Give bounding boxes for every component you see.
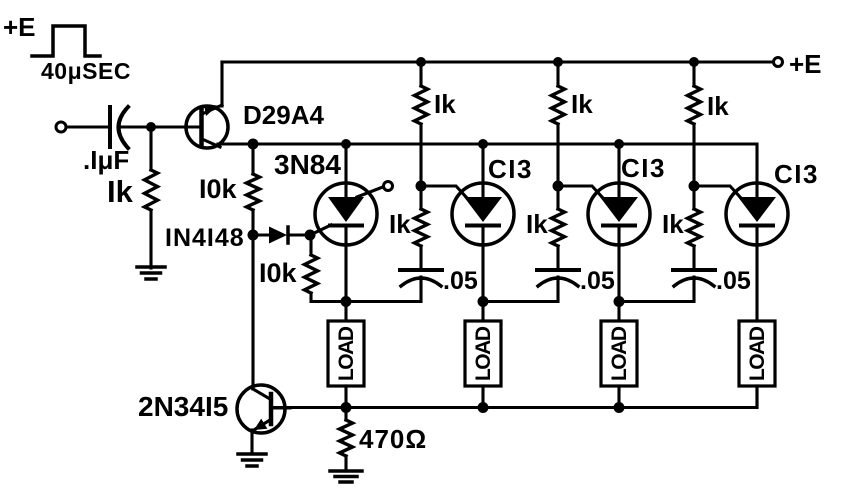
SCR #4 cathode wire xyxy=(755,225,758,321)
U1 cathode wire xyxy=(344,225,347,302)
svg-text:.05: .05 xyxy=(443,267,478,295)
wire node down to 10k lower xyxy=(309,235,312,255)
svg-text:LOAD: LOAD xyxy=(335,326,358,381)
wire capacitor C to previous cathode node xyxy=(619,277,694,302)
junction U1 cathode node xyxy=(341,296,352,307)
svg-text:LOAD: LOAD xyxy=(608,326,631,381)
svg-text:I0k: I0k xyxy=(199,174,238,204)
diode D1 1N4148 xyxy=(253,227,310,244)
pulse waveform symbol xyxy=(32,26,100,56)
svg-text:I0k: I0k xyxy=(259,258,298,288)
svg-text:IN4I48: IN4I48 xyxy=(165,224,245,252)
svg-text:+E: +E xyxy=(789,49,822,79)
U1 anode wire xyxy=(344,144,347,200)
svg-text:CI3: CI3 xyxy=(621,153,666,183)
svg-text:Ik: Ik xyxy=(107,174,134,209)
junction diode cathode node xyxy=(305,230,316,241)
SCR #2 triangle xyxy=(464,197,502,222)
wire 470Ω to ground xyxy=(344,456,347,471)
svg-text:Ik: Ik xyxy=(434,89,456,119)
wire 10k to diode node xyxy=(251,210,254,235)
capacitor C1 .1μF right plate xyxy=(119,107,129,148)
junction Q1 collector node xyxy=(248,139,259,150)
resistor 10k (upper) xyxy=(247,174,260,210)
Q2 base bar xyxy=(269,394,274,424)
wire 1k to capacitor B xyxy=(556,246,559,270)
junction SCR #3 anode on rail xyxy=(614,139,624,149)
wire input terminal to C1 xyxy=(67,125,110,128)
wire 1k to capacitor C xyxy=(692,246,695,270)
svg-text:Ik: Ik xyxy=(707,91,729,121)
wire 1k to capacitor A xyxy=(419,246,422,270)
svg-text:Ik: Ik xyxy=(526,209,548,239)
SCR C13 #2 body xyxy=(452,183,514,245)
capacitor C1 .1μF left plate xyxy=(108,107,112,147)
wire 1k to gate node B (crosses anode rail) xyxy=(556,124,559,186)
SCR #4 cathode bar xyxy=(741,224,773,228)
Q2 emitter wire xyxy=(250,430,253,453)
wire gate node B to coupling 1k xyxy=(556,186,559,209)
wire rail to 470Ω xyxy=(344,408,347,421)
junction +E rail node C xyxy=(689,57,699,67)
junction +E rail node A xyxy=(416,57,426,67)
capacitor .05 B curved plate xyxy=(538,278,578,286)
svg-text:.IμF: .IμF xyxy=(83,145,129,175)
junction +E rail node B xyxy=(553,57,563,67)
resistor 1k pull-up C xyxy=(688,86,701,124)
wire LOAD 3 to bottom rail xyxy=(617,386,620,408)
wire capacitor A to previous cathode node xyxy=(346,277,421,302)
svg-text:CI3: CI3 xyxy=(488,154,533,184)
wire node A to Q1 base xyxy=(151,125,201,128)
junction gate node A xyxy=(416,181,427,192)
junction bottom rail at x=483 xyxy=(478,402,489,413)
LOAD 4 box xyxy=(739,321,775,386)
capacitor .05 C curved plate xyxy=(674,278,714,286)
LOAD 1 box xyxy=(328,321,364,386)
wire gate node B to SCR gate xyxy=(558,186,603,198)
terminal +E xyxy=(774,58,783,67)
junction bottom rail at x=619 xyxy=(614,402,625,413)
wire LOAD 1 to bottom rail xyxy=(344,386,347,408)
Q1 collector lead xyxy=(202,139,220,147)
transistor Q2 2N3415 body xyxy=(237,385,285,433)
wire bottom common rail xyxy=(272,386,757,408)
wire 1k to gate node C (crosses anode rail) xyxy=(692,124,695,186)
wire rail to 1k pull-up C xyxy=(692,62,695,86)
wire 1k to gate node A (crosses anode rail) xyxy=(419,124,422,186)
wire node A down to R1 xyxy=(149,127,152,170)
svg-text:CI3: CI3 xyxy=(774,159,819,189)
wire gate lead to U1 cathode gate xyxy=(310,225,331,235)
Q2 collector lead xyxy=(253,389,270,399)
resistor R1 1k xyxy=(145,170,158,210)
svg-text:40μSEC: 40μSEC xyxy=(41,58,131,84)
SCR #2 cathode wire xyxy=(481,225,484,302)
U1 anode-gate lead xyxy=(357,187,384,198)
svg-text:Ik: Ik xyxy=(662,209,684,239)
SCR #3 cathode bar xyxy=(603,224,635,228)
svg-text:.05: .05 xyxy=(716,267,751,295)
capacitor .05 A curved plate xyxy=(401,278,441,286)
wire gate node A to coupling 1k xyxy=(419,186,422,209)
svg-text:+E: +E xyxy=(3,12,36,42)
wire cathode node to LOAD 1 xyxy=(344,302,347,323)
Q1 emitter lead with arrow xyxy=(202,105,222,117)
wire cathode node to LOAD 2 xyxy=(481,302,484,323)
SCR #3 triangle xyxy=(600,197,638,222)
wire rail to 1k pull-up B xyxy=(556,62,559,86)
svg-text:.05: .05 xyxy=(580,267,615,295)
junction node A xyxy=(146,122,156,132)
wire cathode node to LOAD 3 xyxy=(617,302,620,323)
wire rail to 1k pull-up A xyxy=(419,62,422,86)
junction gate node C xyxy=(689,181,700,192)
Q2 base wire to rail xyxy=(272,406,290,409)
resistor 1k pull-up B xyxy=(552,86,565,124)
wire gate node C to coupling 1k xyxy=(692,186,695,209)
wire gate node A to SCR gate xyxy=(421,186,467,198)
resistor 1k coupling B xyxy=(552,209,565,246)
Q1 base bar xyxy=(199,109,204,146)
wire capacitor B to previous cathode node xyxy=(483,277,558,302)
SCR #3 cathode wire xyxy=(617,225,620,302)
wire diode node down to Q2 collector xyxy=(251,235,254,389)
svg-text:2N34I5: 2N34I5 xyxy=(138,391,228,422)
wire 10k lower to cathode node xyxy=(311,293,346,302)
resistor 10k (lower) xyxy=(305,255,318,293)
input terminal xyxy=(56,122,66,132)
ground (input bias) xyxy=(137,267,165,279)
junction SCR #2 anode on rail xyxy=(478,139,488,149)
junction U1 anode on rail xyxy=(341,139,351,149)
U1 gate terminal xyxy=(384,182,393,191)
resistor 470Ω xyxy=(340,420,353,456)
SCR C13 #3 body xyxy=(588,183,650,245)
svg-text:Ik: Ik xyxy=(571,89,593,119)
svg-text:LOAD: LOAD xyxy=(746,326,769,381)
Q2 emitter lead with arrow xyxy=(253,419,270,431)
wire C1 to node A xyxy=(119,125,151,128)
wire Q1 emitter to +E rail xyxy=(220,62,223,106)
svg-text:Ik: Ik xyxy=(389,209,411,239)
wire node to 10k xyxy=(251,144,254,174)
capacitor .05 A top plate xyxy=(400,268,442,272)
SCR #3 anode wire xyxy=(617,144,620,200)
svg-text:470Ω: 470Ω xyxy=(359,424,427,454)
transistor Q1 D29A4 body xyxy=(186,106,228,148)
junction SCR #2 cathode node xyxy=(478,296,489,307)
svg-text:D29A4: D29A4 xyxy=(243,100,324,130)
capacitor .05 C top plate xyxy=(673,268,715,272)
SCR C13 #4 body xyxy=(726,183,788,245)
capacitor .05 B top plate xyxy=(537,268,579,272)
U1 triangle xyxy=(328,197,364,222)
resistor 1k pull-up A xyxy=(415,86,428,124)
U1 cathode bar xyxy=(330,224,362,228)
svg-text:3N84: 3N84 xyxy=(274,149,341,180)
SCR #2 anode wire xyxy=(481,144,484,200)
SCR #4 triangle xyxy=(738,197,776,222)
wire R1 to ground xyxy=(149,211,152,268)
LOAD 2 box xyxy=(465,321,501,386)
junction diode anode node xyxy=(248,230,259,241)
wire anode rail from Q1 collector xyxy=(218,144,757,198)
junction gate node B xyxy=(553,181,564,192)
SCR #2 cathode bar xyxy=(467,224,499,228)
ground (470Ω) xyxy=(330,471,362,482)
SCR U1 3N84 body xyxy=(315,183,377,245)
wire LOAD 2 to bottom rail xyxy=(481,386,484,408)
wire LOAD 4 to bottom rail xyxy=(755,386,758,408)
junction bottom rail at x=346 xyxy=(341,402,352,413)
wire +E supply rail xyxy=(222,60,773,63)
svg-text:LOAD: LOAD xyxy=(472,326,495,381)
LOAD 3 box xyxy=(601,321,637,386)
ground (Q2 emitter) xyxy=(238,454,266,466)
resistor 1k coupling C xyxy=(688,209,701,246)
resistor 1k coupling A xyxy=(415,209,428,246)
junction SCR #3 cathode node xyxy=(614,296,625,307)
wire gate node C to SCR gate xyxy=(694,186,741,198)
